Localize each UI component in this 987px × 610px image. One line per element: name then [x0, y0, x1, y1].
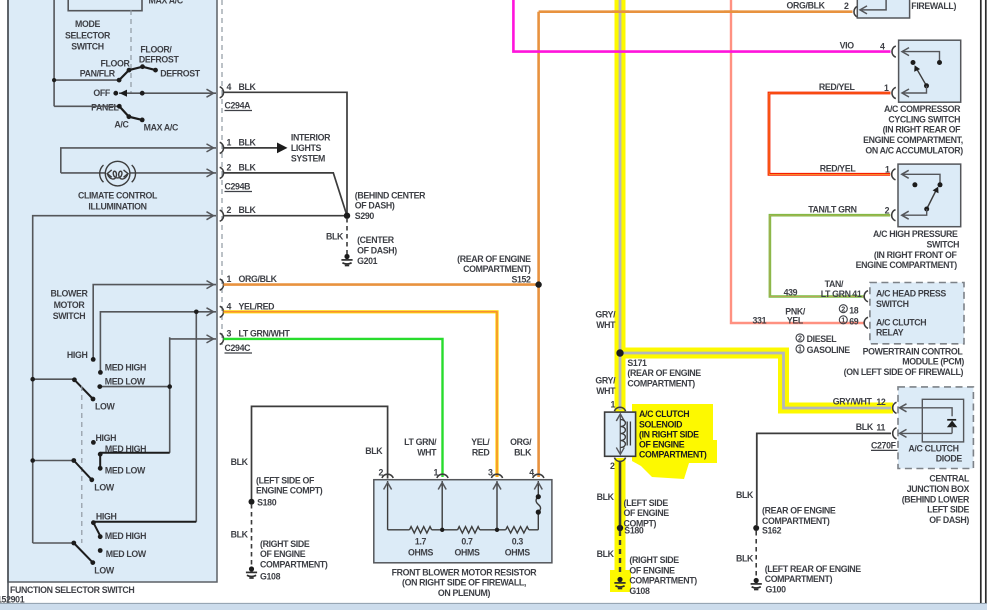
wire YEL/RED from C294C pin4 to resistor pin 3 — [224, 312, 498, 477]
highlight blob at G108 ground — [610, 570, 631, 592]
svg-text:41: 41 — [852, 289, 862, 299]
svg-text:LT GRN/: LT GRN/ — [404, 437, 437, 447]
svg-text:MAX A/C: MAX A/C — [144, 122, 179, 132]
wire 2 BLK row from main bus to connector — [33, 216, 216, 543]
svg-text:HIGH: HIGH — [96, 433, 117, 443]
svg-text:(IN RIGHT REAR OF: (IN RIGHT REAR OF — [883, 125, 962, 135]
svg-text:11: 11 — [876, 423, 885, 433]
ground G100 — [751, 578, 762, 590]
wire LT GRN/WHT from C294C pin3 to resistor pin 1 — [224, 339, 443, 477]
svg-text:G108: G108 — [629, 586, 650, 596]
high pressure switch blade — [927, 191, 936, 210]
svg-text:1: 1 — [227, 274, 232, 284]
svg-text:S152: S152 — [511, 274, 531, 284]
svg-text:RED: RED — [472, 448, 490, 458]
resistor 0.7 ohms — [458, 527, 480, 533]
svg-text:A/C COMPRESSOR: A/C COMPRESSOR — [884, 104, 961, 114]
splice S162 — [753, 525, 759, 531]
group3 feed wire — [33, 542, 74, 544]
svg-text:YEL/RED: YEL/RED — [239, 301, 275, 311]
svg-text:DEFROST: DEFROST — [160, 69, 201, 79]
svg-text:BLK: BLK — [239, 205, 257, 215]
wire TAN/LT GRN high pressure switch pin2 to PCM pin 41 — [770, 215, 890, 296]
svg-text:LOW: LOW — [94, 565, 115, 575]
svg-text:LT GRN/WHT: LT GRN/WHT — [239, 328, 291, 338]
thermal limiter squiggle — [536, 497, 541, 512]
circled 1 GASOLINE — [796, 345, 804, 353]
svg-text:TAN/LT GRN: TAN/LT GRN — [808, 204, 856, 214]
highlight S171 branch to PCM/junction box — [620, 353, 893, 408]
svg-text:BLK: BLK — [239, 162, 257, 172]
svg-text:MED HIGH: MED HIGH — [105, 531, 146, 541]
svg-text:OF DASH): OF DASH) — [929, 515, 969, 525]
svg-text:BLK: BLK — [597, 549, 615, 559]
svg-text:FUNCTION SELECTOR SWITCH: FUNCTION SELECTOR SWITCH — [10, 585, 134, 595]
wire YEL/RED row to connector — [100, 312, 216, 373]
svg-text:A/C HEAD PRESS: A/C HEAD PRESS — [876, 289, 946, 299]
junction dots on resistor row — [440, 528, 444, 532]
svg-text:BLK: BLK — [239, 82, 257, 92]
svg-text:GRY/WHT: GRY/WHT — [833, 396, 873, 406]
svg-text:OF DASH): OF DASH) — [355, 201, 395, 211]
wire BLK from resistor pin 2 to S180 — [252, 406, 388, 502]
high pressure switch pin 2 connector — [892, 210, 896, 221]
mode selector switch top box (cut off at top) — [68, 0, 142, 11]
svg-text:SWITCH: SWITCH — [927, 240, 960, 250]
dashed mechanical link function switch — [81, 386, 83, 543]
svg-text:OHMS: OHMS — [505, 547, 530, 557]
wire RED/YEL cycling switch pin1 to high pressure switch pin1 — [769, 93, 891, 174]
dashed BLK wire S180 to G108 (highlighted) — [619, 531, 621, 576]
svg-text:2: 2 — [841, 304, 845, 313]
group1 feed wire from main bus — [33, 378, 75, 380]
wire ORG/BLK from C294C pin1 to splice S152 — [224, 283, 539, 286]
svg-text:G100: G100 — [766, 584, 787, 594]
svg-text:BLK: BLK — [736, 490, 754, 500]
svg-text:HIGH: HIGH — [96, 512, 117, 522]
circled 1 / 69 — [839, 316, 847, 324]
svg-text:2: 2 — [378, 468, 383, 478]
wire GRY/WHT branch S171 to junction box pin 12 — [620, 353, 891, 408]
svg-text:BLK: BLK — [856, 422, 874, 432]
central junction box dashed outline — [898, 387, 973, 469]
highlight GRY/WHT wire vertical (circuit trace highlight) — [615, 0, 626, 412]
svg-text:ON PLENUM): ON PLENUM) — [438, 588, 491, 598]
svg-text:BLK: BLK — [231, 457, 249, 467]
svg-text:LT GRN: LT GRN — [821, 289, 851, 299]
svg-text:RED/YEL: RED/YEL — [820, 163, 857, 173]
svg-text:YEL: YEL — [787, 316, 804, 326]
resistor pin 4 connector — [533, 474, 544, 478]
svg-text:BLK: BLK — [365, 446, 383, 456]
diode wire from pin 12 — [901, 408, 953, 416]
function/mode selector switch panel — [8, 0, 217, 582]
svg-text:331: 331 — [753, 316, 767, 326]
svg-text:1: 1 — [433, 468, 438, 478]
svg-text:3: 3 — [488, 468, 493, 478]
mode switch blade PAN/FLR->FLOOR->FLOOR/DEFROST->DEFROST — [119, 67, 155, 80]
svg-text:SOLENOID: SOLENOID — [639, 419, 682, 429]
svg-text:MED LOW: MED LOW — [105, 376, 146, 386]
svg-text:OF DASH): OF DASH) — [357, 246, 397, 256]
junction box pin 12 connector — [893, 402, 897, 413]
svg-text:COMPARTMENT): COMPARTMENT) — [765, 574, 833, 584]
resistor internal: pin3 riser — [496, 481, 498, 530]
wire PNK/YEL to PCM pin 69 — [731, 0, 864, 323]
A/C high pressure switch box — [898, 164, 961, 227]
svg-text:(RIGHT SIDE: (RIGHT SIDE — [629, 555, 679, 565]
connector pin 2 BLK — [220, 210, 224, 221]
svg-text:OF ENGINE: OF ENGINE — [629, 565, 675, 575]
svg-text:FRONT BLOWER MOTOR RESISTOR: FRONT BLOWER MOTOR RESISTOR — [392, 567, 538, 577]
svg-text:VIO: VIO — [840, 40, 855, 50]
svg-text:1: 1 — [885, 164, 890, 174]
svg-text:1: 1 — [841, 316, 845, 325]
highlight BLK wire below solenoid down to G108 — [615, 458, 626, 592]
svg-text:A/C CLUTCH: A/C CLUTCH — [639, 409, 689, 419]
resistor element row — [388, 529, 539, 531]
svg-text:MED HIGH: MED HIGH — [105, 363, 146, 373]
svg-text:S162: S162 — [762, 526, 782, 536]
climate control illumination bulb — [100, 161, 136, 186]
svg-text:(LEFT REAR OF ENGINE: (LEFT REAR OF ENGINE — [765, 564, 862, 574]
svg-text:(ON LEFT SIDE OF FIREWALL): (ON LEFT SIDE OF FIREWALL) — [844, 367, 964, 377]
svg-text:G108: G108 — [260, 572, 281, 582]
cycling switch internals — [903, 52, 940, 60]
resistor pin 3 connector — [491, 474, 502, 478]
svg-text:CYCLING SWITCH: CYCLING SWITCH — [888, 114, 960, 124]
svg-text:(CENTER: (CENTER — [357, 235, 395, 245]
splice S152 — [535, 281, 541, 287]
svg-text:MODULE (PCM): MODULE (PCM) — [902, 357, 964, 367]
svg-text:INTERIOR: INTERIOR — [291, 133, 331, 143]
powertrain control module dashed box — [870, 283, 964, 344]
svg-text:1: 1 — [610, 399, 615, 409]
connector pin 2 BLK — [220, 167, 224, 178]
svg-text:MAX A/C: MAX A/C — [149, 0, 184, 5]
svg-text:G201: G201 — [357, 256, 378, 266]
svg-text:ORG/: ORG/ — [510, 437, 532, 447]
connector pin 1 ORG/BLK — [220, 279, 224, 290]
svg-text:18: 18 — [849, 306, 859, 316]
svg-text:FIREWALL): FIREWALL) — [911, 1, 956, 11]
svg-text:SWITCH: SWITCH — [876, 299, 909, 309]
svg-text:2: 2 — [227, 205, 232, 215]
svg-text:2: 2 — [610, 461, 615, 471]
svg-text:OF ENGINE: OF ENGINE — [260, 549, 306, 559]
svg-text:BLK: BLK — [597, 492, 615, 502]
splice S180 (right) — [617, 525, 623, 531]
svg-text:SELECTOR: SELECTOR — [65, 30, 111, 40]
wire ORG/BLK overlay at crossings — [612, 10, 738, 13]
svg-text:(REAR OF ENGINE: (REAR OF ENGINE — [627, 368, 701, 378]
svg-text:JUNCTION BOX: JUNCTION BOX — [907, 484, 970, 494]
connector pin 4 BLK — [220, 87, 224, 98]
wire: feed bus of mode switch — [53, 0, 55, 106]
wire OFF contact row to connector C294A — [119, 92, 216, 94]
svg-text:BLK: BLK — [736, 553, 754, 563]
svg-text:OHMS: OHMS — [455, 547, 480, 557]
svg-text:C294A: C294A — [225, 101, 252, 111]
svg-text:POWERTRAIN CONTROL: POWERTRAIN CONTROL — [863, 346, 964, 356]
svg-text:C270F: C270F — [871, 440, 897, 450]
svg-text:BLK: BLK — [326, 232, 344, 242]
svg-text:ENGINE COMPARTMENT,: ENGINE COMPARTMENT, — [863, 135, 963, 145]
connector C294 dashed line — [221, 0, 223, 345]
bottom toolbar strip — [0, 604, 987, 610]
ground G108 (right, highlighted) — [614, 577, 625, 589]
high pressure switch internals — [903, 174, 940, 182]
dashed mechanical link line of mode switch — [130, 10, 132, 93]
svg-text:ORG/BLK: ORG/BLK — [787, 0, 826, 10]
svg-text:WHT: WHT — [596, 386, 616, 396]
front blower motor resistor box — [374, 480, 552, 563]
A/C clutch diode inner box — [922, 399, 963, 442]
svg-text:A/C HIGH PRESSURE: A/C HIGH PRESSURE — [873, 229, 958, 239]
svg-text:YEL/: YEL/ — [471, 437, 490, 447]
svg-text:COMPARTMENT): COMPARTMENT) — [629, 576, 697, 586]
svg-text:COMPARTMENT): COMPARTMENT) — [463, 264, 531, 274]
svg-text:S171: S171 — [627, 358, 647, 368]
svg-text:WHT: WHT — [596, 320, 616, 330]
svg-text:GRY/: GRY/ — [595, 309, 616, 319]
svg-text:ILLUMINATION: ILLUMINATION — [88, 202, 146, 212]
svg-text:OF ENGINE: OF ENGINE — [639, 440, 685, 450]
resistor internal: pin1 riser — [441, 481, 443, 530]
connector pin 1 BLK — [220, 142, 224, 153]
svg-text:2: 2 — [227, 162, 232, 172]
svg-text:(LEFT SIDE OF: (LEFT SIDE OF — [256, 475, 315, 485]
group1 switch blade to LOW — [74, 380, 93, 399]
wire ORG/BLK vertical trunk (to firewall run and resistor pin 4) — [537, 12, 540, 477]
svg-text:PANEL: PANEL — [91, 103, 119, 113]
highlight blob around A/C clutch solenoid text — [632, 404, 717, 479]
svg-text:RED/YEL: RED/YEL — [819, 82, 856, 92]
svg-text:A/C: A/C — [114, 119, 129, 129]
A/C compressor cycling switch box — [899, 40, 961, 102]
svg-text:COMPARTMENT): COMPARTMENT) — [762, 516, 830, 526]
svg-text:LEFT SIDE: LEFT SIDE — [927, 505, 969, 515]
svg-text:0.7: 0.7 — [461, 537, 473, 547]
svg-text:S290: S290 — [355, 211, 375, 221]
svg-text:BLOWER: BLOWER — [51, 289, 89, 299]
svg-text:4: 4 — [227, 82, 232, 92]
wire to PANEL contact — [54, 105, 119, 107]
wire 4 BLK from C294A down to splice S290 — [224, 92, 348, 215]
svg-text:FLOOR: FLOOR — [100, 59, 130, 69]
svg-text:FLOOR/: FLOOR/ — [140, 45, 172, 55]
PCM pin 41 connector — [864, 291, 868, 302]
page frame left border — [7, 0, 9, 603]
svg-text:CLIMATE CONTROL: CLIMATE CONTROL — [78, 190, 158, 200]
svg-text:(IN RIGHT SIDE: (IN RIGHT SIDE — [639, 429, 699, 439]
resistor 0.3 ohms — [506, 527, 529, 533]
svg-text:152901: 152901 — [0, 595, 25, 605]
svg-text:DIESEL: DIESEL — [807, 334, 838, 344]
junction of YEL/RED with function switch HIGH riser — [195, 312, 197, 522]
splice S171 — [616, 349, 623, 356]
svg-text:S180: S180 — [257, 497, 277, 507]
ground G201 — [341, 254, 352, 266]
svg-text:S180: S180 — [624, 525, 644, 535]
arrow to interior lights system — [277, 143, 288, 154]
svg-text:MED LOW: MED LOW — [105, 465, 146, 475]
svg-text:12: 12 — [876, 397, 886, 407]
svg-text:(BEHIND CENTER: (BEHIND CENTER — [355, 190, 426, 200]
svg-text:(BEHIND LOWER: (BEHIND LOWER — [902, 494, 970, 504]
svg-text:DEFROST: DEFROST — [139, 54, 180, 64]
svg-text:LIGHTS: LIGHTS — [291, 143, 322, 153]
svg-text:A/C CLUTCH: A/C CLUTCH — [876, 317, 926, 327]
resistor 1.7 ohms — [410, 527, 432, 533]
svg-text:3: 3 — [227, 328, 232, 338]
junction box pin 11 connector — [893, 428, 897, 439]
svg-text:COMPARTMENT): COMPARTMENT) — [627, 378, 695, 388]
group2 feed wire — [33, 460, 74, 462]
cycling switch pin 1 connector — [892, 87, 896, 98]
svg-text:HIGH: HIGH — [67, 350, 88, 360]
circled 2 / 18 — [839, 305, 847, 313]
wire inside firewall box — [861, 0, 886, 10]
svg-text:SYSTEM: SYSTEM — [291, 154, 325, 164]
svg-text:C294C: C294C — [225, 343, 252, 353]
wire 2 BLK C294B diagonal to S290 — [224, 173, 348, 216]
svg-text:MED LOW: MED LOW — [106, 549, 147, 559]
svg-text:1: 1 — [227, 137, 232, 147]
svg-text:WHT: WHT — [417, 448, 437, 458]
arrow pointing at OFF contact — [120, 90, 128, 97]
svg-text:BLK: BLK — [514, 448, 532, 458]
svg-text:4: 4 — [529, 468, 534, 478]
svg-text:GASOLINE: GASOLINE — [807, 345, 851, 355]
diode wire from pin 11 — [901, 432, 953, 434]
svg-text:C294B: C294B — [225, 182, 251, 192]
svg-text:0.3: 0.3 — [512, 537, 524, 547]
circled 2 DIESEL — [796, 334, 804, 342]
svg-text:OF ENGINE: OF ENGINE — [624, 508, 670, 518]
firewall box (cut off at top) — [857, 0, 909, 18]
svg-text:COMPARTMENT): COMPARTMENT) — [639, 450, 707, 460]
wire VIO to A/C compressor cycling switch pin 4 — [513, 0, 890, 52]
wire ORG/BLK row to connector (gray in panel) — [93, 285, 216, 360]
mode switch blade PANEL->A/C->MAX A/C — [119, 106, 142, 120]
svg-text:GRY/: GRY/ — [595, 375, 616, 385]
ground G108 (left) — [246, 566, 257, 578]
dashed BLK wire S162 to G100 — [755, 531, 757, 578]
svg-text:LOW: LOW — [95, 402, 116, 412]
connector pin 4 YEL/RED — [220, 306, 224, 317]
svg-text:ON A/C ACCUMULATOR): ON A/C ACCUMULATOR) — [865, 145, 963, 155]
wire to PAN/FLR contact — [54, 79, 119, 81]
svg-text:BLK: BLK — [239, 137, 257, 147]
wire BLK junction box pin 11 to splice S162 — [757, 433, 891, 525]
svg-text:COMPARTMENT): COMPARTMENT) — [260, 559, 328, 569]
splice S290 — [344, 213, 350, 219]
wire climate illumination to pin 1 C294B — [61, 148, 216, 173]
solenoid internal plunger arrow — [619, 414, 621, 455]
resistor internal: pin4 riser with thermal limiter — [537, 481, 539, 530]
PCM pin 69 connector — [864, 317, 868, 328]
dashed BLK wire S180 to G108 — [251, 504, 253, 567]
diode symbol — [947, 419, 956, 421]
svg-text:(REAR OF ENGINE: (REAR OF ENGINE — [762, 506, 836, 516]
A/C clutch solenoid U-box — [605, 412, 636, 456]
group3 switch blade to LOW — [74, 543, 93, 563]
svg-text:(IN RIGHT FRONT OF: (IN RIGHT FRONT OF — [874, 250, 958, 260]
svg-text:PAN/FLR: PAN/FLR — [80, 69, 116, 79]
svg-text:(REAR OF ENGINE: (REAR OF ENGINE — [457, 254, 531, 264]
svg-text:MODE: MODE — [75, 19, 100, 29]
high pressure switch pin 1 connector — [892, 169, 896, 180]
svg-text:SWITCH: SWITCH — [71, 42, 104, 52]
dashed BLK wire S290 to G201 — [346, 218, 348, 254]
svg-text:4: 4 — [880, 41, 885, 51]
group2 switch blade to LOW — [74, 461, 92, 480]
page frame right border — [980, 0, 982, 603]
svg-text:2: 2 — [885, 205, 890, 215]
svg-text:1.7: 1.7 — [415, 537, 427, 547]
svg-text:439: 439 — [784, 288, 798, 298]
svg-text:(RIGHT SIDE: (RIGHT SIDE — [260, 539, 310, 549]
svg-text:(LEFT SIDE: (LEFT SIDE — [624, 498, 669, 508]
svg-text:1: 1 — [884, 83, 889, 93]
svg-text:4: 4 — [227, 301, 232, 311]
wire climate illumination lamp row to pin 2 C294B — [61, 172, 216, 174]
svg-text:SWITCH: SWITCH — [53, 311, 86, 321]
svg-text:OHMS: OHMS — [408, 547, 433, 557]
cycling switch blade — [917, 69, 927, 86]
resistor pin 1 connector — [437, 474, 448, 478]
wire ORG/BLK top run to firewall connector — [539, 10, 853, 13]
svg-text:ORG/BLK: ORG/BLK — [239, 274, 278, 284]
wire 2 BLK row to S290 — [224, 215, 348, 217]
cycling switch pin 4 connector — [892, 46, 896, 57]
resistor pin 2 connector — [382, 474, 393, 478]
svg-text:2: 2 — [844, 1, 849, 11]
svg-text:(ON RIGHT SIDE OF FIREWALL,: (ON RIGHT SIDE OF FIREWALL, — [402, 578, 526, 588]
svg-text:OFF: OFF — [93, 88, 111, 98]
connector pin 3 LT GRN/WHT — [220, 333, 224, 344]
svg-text:RELAY: RELAY — [876, 328, 904, 338]
wire BLK solenoid to S180 (highlighted) — [619, 462, 622, 526]
svg-text:BLK: BLK — [231, 529, 249, 539]
svg-text:A/C CLUTCH: A/C CLUTCH — [908, 443, 958, 453]
splice S180 (left) — [249, 499, 255, 505]
wire GRY/WHT vertical trunk (highlighted) — [619, 0, 622, 410]
resistor internal: pin2 riser — [387, 481, 389, 530]
svg-text:TAN/: TAN/ — [825, 279, 844, 289]
svg-text:DIODE: DIODE — [936, 454, 963, 464]
svg-text:2: 2 — [798, 334, 802, 343]
connector at firewall box — [854, 6, 858, 17]
solenoid core bars — [627, 422, 630, 446]
svg-text:MOTOR: MOTOR — [54, 300, 86, 310]
svg-text:LOW: LOW — [94, 483, 115, 493]
solenoid coil — [620, 420, 625, 448]
wire LT GRN/WHT row to connector — [170, 337, 216, 452]
svg-text:ENGINE COMPT): ENGINE COMPT) — [256, 486, 323, 496]
wire 1 BLK to interior lights system — [224, 147, 278, 149]
svg-text:CENTRAL: CENTRAL — [929, 474, 970, 484]
svg-text:ENGINE COMPARTMENT): ENGINE COMPARTMENT) — [856, 260, 958, 270]
svg-text:1: 1 — [798, 345, 802, 354]
svg-text:69: 69 — [849, 317, 859, 327]
